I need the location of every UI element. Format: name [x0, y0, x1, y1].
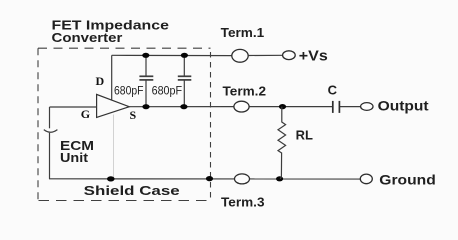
svg-text:Shield Case: Shield Case: [84, 183, 180, 198]
faint wire: source-case drop: [113, 115, 115, 179]
wire: Term.1 to +Vs: [248, 54, 282, 56]
svg-text:Ground: Ground: [379, 172, 436, 188]
junction dot top rail right: [181, 53, 188, 58]
terminal Output: [361, 103, 373, 111]
ECM capsule arc: [44, 130, 58, 133]
svg-text:Term.3: Term.3: [221, 195, 265, 210]
capacitor C1 680pF: [139, 55, 153, 106]
terminal Term.3: [235, 174, 250, 184]
svg-text:RL: RL: [296, 129, 314, 143]
capacitor C2 680pF: [178, 55, 192, 106]
terminal Ground: [360, 174, 372, 184]
svg-text:680pF: 680pF: [152, 84, 183, 98]
wire: ECM left vertical lower: [49, 133, 51, 179]
terminal +Vs: [283, 51, 296, 60]
wire: bottom shield/ground rail: [49, 178, 360, 180]
junction dot shield at case: [107, 176, 115, 181]
shield case dashed boundary: [38, 48, 211, 200]
wire: gate lead: [50, 106, 97, 108]
svg-text:Converter: Converter: [52, 30, 123, 45]
svg-text:Output: Output: [378, 98, 429, 114]
svg-text:680pF: 680pF: [114, 84, 144, 98]
svg-text:S: S: [130, 108, 137, 122]
junction dot RL top: [279, 104, 286, 109]
wire: source rail (Term.2 rail): [129, 106, 234, 108]
svg-text:G: G: [81, 107, 90, 121]
svg-text:+Vs: +Vs: [299, 49, 328, 65]
terminal Term.2: [234, 101, 249, 112]
junction dot shield at boundary: [206, 176, 213, 181]
op-amp style triangle: FET impedance converter: [97, 94, 130, 117]
junction dot source rail right: [180, 104, 187, 109]
svg-text:D: D: [96, 74, 105, 88]
svg-text:Term.2: Term.2: [223, 83, 267, 98]
resistor RL: [278, 107, 286, 179]
wire: ECM left vertical upper: [49, 107, 51, 128]
svg-text:Term.1: Term.1: [221, 25, 265, 40]
wire: top supply rail (drain rail): [112, 54, 232, 56]
svg-text:C: C: [328, 83, 338, 98]
capacitor C plates: [332, 101, 334, 113]
terminal Term.1: [232, 49, 248, 62]
junction dot RL bottom: [276, 176, 283, 181]
wire: drain vertical: [111, 55, 113, 99]
junction dot source rail left: [142, 104, 149, 109]
junction dot top rail left: [142, 53, 149, 58]
svg-text:Unit: Unit: [60, 150, 89, 165]
